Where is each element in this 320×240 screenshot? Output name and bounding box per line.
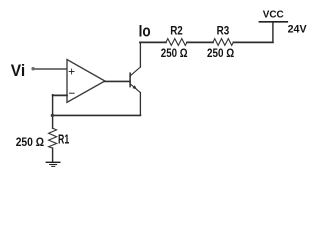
svg-text:250 Ω: 250 Ω <box>16 135 45 149</box>
svg-text:R1: R1 <box>58 132 69 146</box>
svg-text:R3: R3 <box>217 24 230 38</box>
svg-text:Io: Io <box>139 22 151 41</box>
svg-text:250 Ω: 250 Ω <box>207 48 234 60</box>
svg-text:R2: R2 <box>170 24 183 38</box>
svg-text:250 Ω: 250 Ω <box>161 48 188 60</box>
svg-text:Vi: Vi <box>11 61 25 80</box>
svg-text:VCC: VCC <box>263 9 284 21</box>
svg-text:24V: 24V <box>288 24 308 36</box>
